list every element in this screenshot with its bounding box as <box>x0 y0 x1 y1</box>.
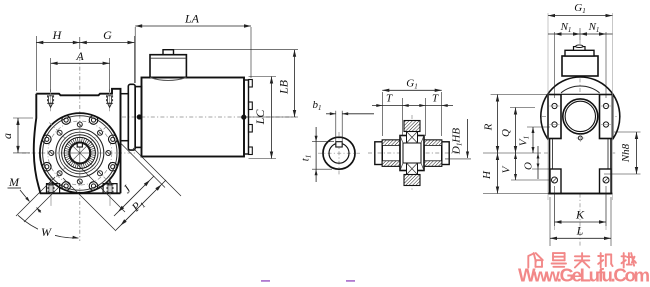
svg-text:L: L <box>576 224 584 238</box>
svg-text:O: O <box>523 162 535 170</box>
svg-text:LB: LB <box>277 79 291 95</box>
svg-text:Www.GeLufu.Com: Www.GeLufu.Com <box>518 265 650 286</box>
svg-text:Q: Q <box>500 129 512 137</box>
svg-text:K: K <box>575 208 585 222</box>
svg-text:W: W <box>41 225 52 239</box>
svg-text:M: M <box>8 175 20 189</box>
svg-text:D1HB: D1HB <box>451 128 464 155</box>
svg-text:R: R <box>483 123 495 131</box>
svg-text:T: T <box>432 93 439 105</box>
svg-text:Nh8: Nh8 <box>620 143 632 163</box>
svg-text:H: H <box>52 28 63 42</box>
svg-text:H: H <box>481 170 493 180</box>
svg-text:T: T <box>386 93 393 105</box>
svg-text:a: a <box>0 133 14 139</box>
svg-text:LA: LA <box>184 12 200 26</box>
svg-text:LC: LC <box>253 109 267 126</box>
svg-text:A: A <box>75 49 84 63</box>
svg-text:G: G <box>103 28 112 42</box>
